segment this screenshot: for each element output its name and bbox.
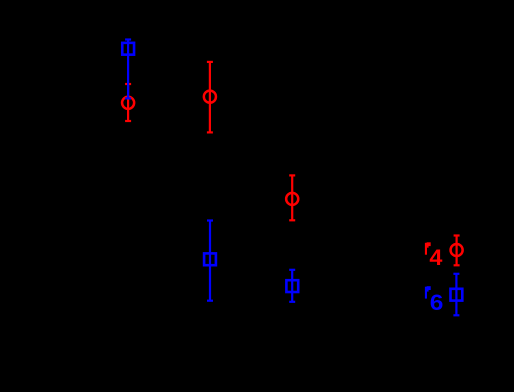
svg-text:4: 4 bbox=[429, 245, 442, 270]
red errorbar point 3 bbox=[286, 175, 298, 220]
blue errorbar point 2 bbox=[204, 221, 216, 301]
blue errorbar point 3 bbox=[286, 270, 298, 302]
blue series r6 bbox=[122, 40, 462, 316]
red errorbar point 2 bbox=[204, 62, 216, 132]
svg-text:6: 6 bbox=[430, 290, 444, 315]
red errorbar point 1 bbox=[122, 84, 134, 121]
legend label r6 bbox=[425, 286, 431, 298]
red series r4 bbox=[122, 62, 463, 265]
red legend sample bbox=[451, 236, 463, 266]
blue legend sample bbox=[451, 274, 463, 316]
legend label r4 bbox=[425, 242, 431, 254]
blue errorbar point 1 bbox=[122, 40, 134, 99]
